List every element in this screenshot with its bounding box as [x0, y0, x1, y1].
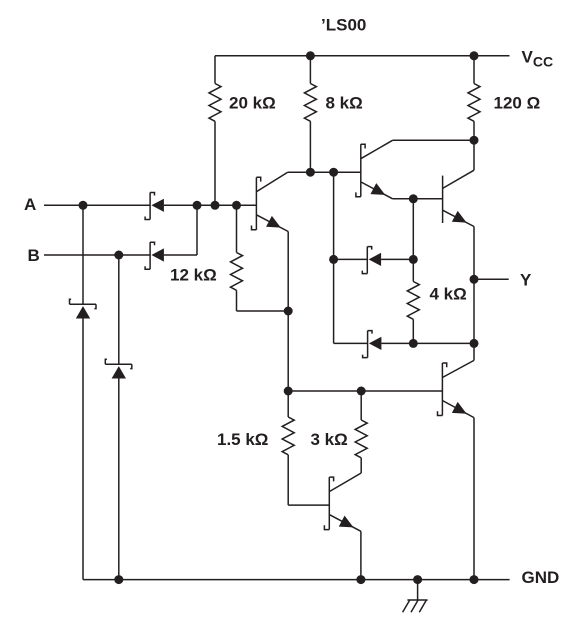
node GND symbol junction [413, 575, 422, 584]
wire mid vertical collector to diodes [333, 172, 335, 343]
svg-text:8 kΩ: 8 kΩ [326, 94, 363, 113]
wire input B clamp vertical [118, 255, 120, 364]
wire Q3 emitter to Y [473, 227, 475, 280]
node GND B clamp junction [114, 575, 123, 584]
wire output Y [474, 278, 509, 280]
node Y junction [470, 275, 479, 284]
wire Q2 collector to 120 Ohm [393, 139, 474, 141]
resistor R6 1.5 kOhm [287, 391, 289, 417]
svg-text:4 kΩ: 4 kΩ [430, 285, 467, 304]
resistor R7 3 kOhm [360, 391, 362, 420]
svg-text:3 kΩ: 3 kΩ [311, 430, 348, 449]
node collector mid junction [329, 168, 338, 177]
wire input A clamp vertical [82, 205, 84, 304]
svg-text:A: A [24, 195, 36, 214]
node 120 top junction [470, 51, 479, 60]
diode D4 clamp B Schottky [105, 363, 132, 365]
wire Q5 emitter to GND [360, 531, 362, 579]
wire GND rail [83, 579, 510, 581]
node Q1 emitter 12k junction [284, 307, 293, 316]
svg-text:B: B [28, 246, 40, 265]
svg-text:VCC: VCC [522, 48, 554, 70]
svg-text:’LS00: ’LS00 [321, 16, 366, 35]
diode D6 Schottky [334, 342, 368, 344]
svg-text:120 Ω: 120 Ω [494, 94, 541, 113]
svg-text:GND: GND [522, 568, 560, 587]
ground symbol [417, 580, 419, 600]
wire input B line [44, 254, 150, 256]
resistor R3 120 Ohm [473, 56, 475, 84]
transistor Q5 squaring Schottky [328, 477, 330, 529]
transistor Q1 input Schottky [255, 177, 257, 230]
transistor Q2 Schottky [360, 144, 362, 197]
node GND Q5 emitter junction [356, 575, 365, 584]
wire Q4 base line [288, 390, 442, 392]
node base line left junction [284, 387, 293, 396]
node base line 3k junction [357, 387, 366, 396]
svg-text:Y: Y [520, 271, 532, 290]
node A B-join junction [193, 201, 202, 210]
node Q2 emitter Q3 base junction [409, 194, 418, 203]
node 8k top junction [306, 51, 315, 60]
node 120 bottom junction [470, 136, 479, 145]
wire Q2 emitter to Q3 base [393, 198, 443, 200]
diode D2 input B Schottky [149, 242, 151, 269]
resistor R2 8 kOhm [309, 56, 311, 84]
wire input A line [44, 204, 150, 206]
diode D5 Schottky [334, 258, 368, 260]
node D5 right junction [409, 255, 418, 264]
resistor R4 12 kOhm [236, 205, 238, 252]
svg-text:1.5 kΩ: 1.5 kΩ [217, 430, 268, 449]
resistor R1 20 kOhm [214, 56, 216, 84]
node 4k bottom junction [409, 339, 418, 348]
diode D3 clamp A Schottky [70, 303, 97, 305]
resistor R5 4 kOhm [412, 259, 414, 281]
wire Q4 emitter to GND [473, 418, 475, 580]
node D5 left junction [329, 255, 338, 264]
svg-text:12 kΩ: 12 kΩ [170, 266, 217, 285]
svg-text:20 kΩ: 20 kΩ [229, 94, 276, 113]
transistor Q4 output pulldown Schottky [441, 363, 443, 416]
node 8k bottom junction [306, 168, 315, 177]
node D6 right junction [470, 339, 479, 348]
diode D1 input A Schottky [149, 193, 151, 220]
wire Y vertical to D6 [473, 279, 475, 343]
wire Q2 emitter node down 4k [412, 199, 414, 260]
node GND Q4 emitter junction [470, 575, 479, 584]
node A 20k junction [211, 201, 220, 210]
node B clamp junction [114, 251, 123, 260]
wire Q1 emitter down [287, 232, 289, 392]
wire Q1 collector to Q2 base [288, 171, 361, 173]
node A clamp junction [79, 201, 88, 210]
wire Vcc rail [215, 55, 510, 57]
transistor Q3 output pullup [442, 176, 444, 223]
node A 12k junction [232, 201, 241, 210]
